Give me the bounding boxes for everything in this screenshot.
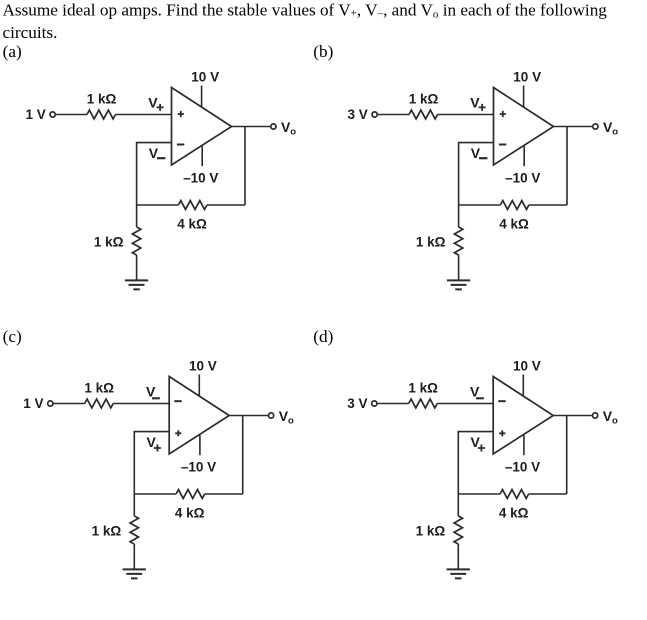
wire +10 V supply (b) xyxy=(523,86,525,108)
svg-text:10 V: 10 V xyxy=(513,70,541,85)
svg-text:1 kΩ: 1 kΩ xyxy=(92,524,122,539)
output terminal (b) xyxy=(593,124,598,129)
wire source to input resistor (a) xyxy=(55,114,87,116)
svg-text:o: o xyxy=(612,415,618,426)
wire feedback node down to 1 kΩ (d) xyxy=(457,494,459,516)
resistor 1 kΩ to ground (c) xyxy=(130,516,138,544)
wire op-amp bottom input to feedback node (d) xyxy=(458,432,493,494)
svg-text:10 V: 10 V xyxy=(191,70,219,85)
svg-text:V: V xyxy=(470,384,480,400)
op-amp bottom input sign − (a) xyxy=(177,144,184,146)
wire +10 V supply (a) xyxy=(201,86,203,108)
wire op-amp output (a) xyxy=(232,126,271,128)
svg-text:1 kΩ: 1 kΩ xyxy=(409,92,439,107)
resistor 4 kΩ feedback (a) xyxy=(178,201,207,210)
svg-text:4 kΩ: 4 kΩ xyxy=(499,506,529,521)
wire feedback from output node down (d) xyxy=(566,416,568,495)
ground (d) xyxy=(447,569,470,578)
resistor 4 kΩ feedback (b) xyxy=(500,201,529,210)
svg-text:10 V: 10 V xyxy=(189,359,217,374)
wire source to input resistor (b) xyxy=(377,114,409,116)
svg-text:(c): (c) xyxy=(3,327,22,346)
wire 4 kΩ to output branch (d) xyxy=(529,493,567,495)
svg-text:1 kΩ: 1 kΩ xyxy=(416,235,446,250)
wire op-amp output (c) xyxy=(229,415,268,417)
output terminal (a) xyxy=(271,124,276,129)
svg-text:–10 V: –10 V xyxy=(183,171,218,186)
ground (a) xyxy=(125,280,148,289)
resistor 1 kΩ to ground (b) xyxy=(454,227,462,255)
wire -10 V supply (a) xyxy=(201,146,203,166)
svg-text:1 kΩ: 1 kΩ xyxy=(416,524,446,539)
wire feedback node to 4 kΩ (a) xyxy=(137,204,179,206)
wire feedback node down to 1 kΩ (c) xyxy=(133,494,135,516)
svg-text:(d): (d) xyxy=(313,327,333,346)
wire feedback node to 4 kΩ (c) xyxy=(134,493,176,495)
wire -10 V supply (b) xyxy=(523,146,525,166)
op-amp bottom input sign + (d) xyxy=(499,430,505,436)
wire input resistor to op-amp top input (a) xyxy=(116,114,172,116)
wire 1 kΩ to ground symbol (d) xyxy=(457,544,459,569)
svg-text:(a): (a) xyxy=(3,42,22,61)
wire +10 V supply (c) xyxy=(198,375,200,397)
resistor 1 kΩ input (a) xyxy=(87,110,116,119)
wire feedback node to 4 kΩ (b) xyxy=(459,204,501,206)
svg-text:4 kΩ: 4 kΩ xyxy=(175,506,205,521)
input terminal (a) xyxy=(50,112,55,117)
svg-text:–10 V: –10 V xyxy=(181,460,216,475)
resistor 1 kΩ input (c) xyxy=(85,399,114,408)
svg-text:4 kΩ: 4 kΩ xyxy=(499,217,529,232)
svg-text:–10 V: –10 V xyxy=(505,171,540,186)
op-amp (d) xyxy=(493,377,553,455)
wire op-amp bottom input to feedback node (b) xyxy=(459,143,494,205)
wire feedback from output node down (a) xyxy=(244,127,246,206)
svg-text:circuits.: circuits. xyxy=(3,23,58,42)
wire 4 kΩ to output branch (a) xyxy=(207,204,245,206)
svg-text:3 V: 3 V xyxy=(347,396,367,411)
op-amp top input sign + (b) xyxy=(500,111,506,117)
output terminal (c) xyxy=(269,413,274,418)
resistor 1 kΩ input (d) xyxy=(409,399,438,408)
svg-text:–10 V: –10 V xyxy=(505,460,540,475)
wire feedback node down to 1 kΩ (b) xyxy=(458,205,460,227)
svg-text:(b): (b) xyxy=(313,42,333,61)
svg-text:Assume ideal op amps. Find the: Assume ideal op amps. Find the stable va… xyxy=(3,1,608,21)
wire input resistor to op-amp top input (b) xyxy=(438,114,494,116)
wire feedback node down to 1 kΩ (a) xyxy=(136,205,138,227)
op-amp (a) xyxy=(172,88,232,166)
svg-text:1 kΩ: 1 kΩ xyxy=(94,235,124,250)
op-amp top input sign − (d) xyxy=(498,400,505,402)
wire op-amp bottom input to feedback node (c) xyxy=(134,432,169,494)
wire feedback from output node down (c) xyxy=(242,416,244,495)
resistor 4 kΩ feedback (c) xyxy=(176,490,205,499)
wire op-amp bottom input to feedback node (a) xyxy=(137,143,172,205)
resistor 1 kΩ to ground (a) xyxy=(132,227,140,255)
op-amp bottom input sign − (b) xyxy=(499,144,506,146)
wire source to input resistor (c) xyxy=(53,403,85,405)
wire +10 V supply (d) xyxy=(522,375,524,397)
ground (c) xyxy=(123,569,146,578)
op-amp (c) xyxy=(169,377,229,455)
wire source to input resistor (d) xyxy=(377,403,409,405)
op-amp bottom input sign + (c) xyxy=(175,430,181,436)
wire input resistor to op-amp top input (c) xyxy=(113,403,169,405)
op-amp top input sign − (c) xyxy=(174,400,181,402)
wire feedback node to 4 kΩ (d) xyxy=(458,493,500,495)
svg-text:1 kΩ: 1 kΩ xyxy=(84,381,114,396)
resistor 4 kΩ feedback (d) xyxy=(500,490,528,499)
svg-text:V: V xyxy=(146,384,156,400)
wire -10 V supply (d) xyxy=(523,435,525,455)
wire 1 kΩ to ground symbol (c) xyxy=(133,544,135,569)
svg-text:o: o xyxy=(290,126,296,137)
input terminal (d) xyxy=(372,401,377,406)
wire 4 kΩ to output branch (c) xyxy=(205,493,243,495)
output terminal (d) xyxy=(593,413,598,418)
ground (b) xyxy=(447,280,470,289)
svg-text:o: o xyxy=(288,415,294,426)
wire op-amp output (b) xyxy=(554,126,593,128)
wire 1 kΩ to ground symbol (a) xyxy=(136,255,138,280)
op-amp (b) xyxy=(494,88,554,166)
svg-text:1 kΩ: 1 kΩ xyxy=(87,92,117,107)
svg-text:4 kΩ: 4 kΩ xyxy=(177,217,207,232)
svg-text:10 V: 10 V xyxy=(513,359,541,374)
input terminal (b) xyxy=(372,112,377,117)
wire 4 kΩ to output branch (b) xyxy=(529,204,567,206)
wire feedback from output node down (b) xyxy=(566,127,568,206)
wire 1 kΩ to ground symbol (b) xyxy=(458,255,460,280)
op-amp top input sign + (a) xyxy=(178,111,184,117)
resistor 1 kΩ input (b) xyxy=(409,110,438,119)
svg-text:1 V: 1 V xyxy=(23,396,43,411)
svg-text:o: o xyxy=(612,126,618,137)
wire input resistor to op-amp top input (d) xyxy=(437,403,493,405)
wire op-amp output (d) xyxy=(553,415,592,417)
wire -10 V supply (c) xyxy=(199,435,201,455)
svg-text:3 V: 3 V xyxy=(348,107,368,122)
svg-text:1 kΩ: 1 kΩ xyxy=(408,381,438,396)
resistor 1 kΩ to ground (d) xyxy=(454,516,462,544)
svg-text:1 V: 1 V xyxy=(26,107,46,122)
input terminal (c) xyxy=(48,401,53,406)
